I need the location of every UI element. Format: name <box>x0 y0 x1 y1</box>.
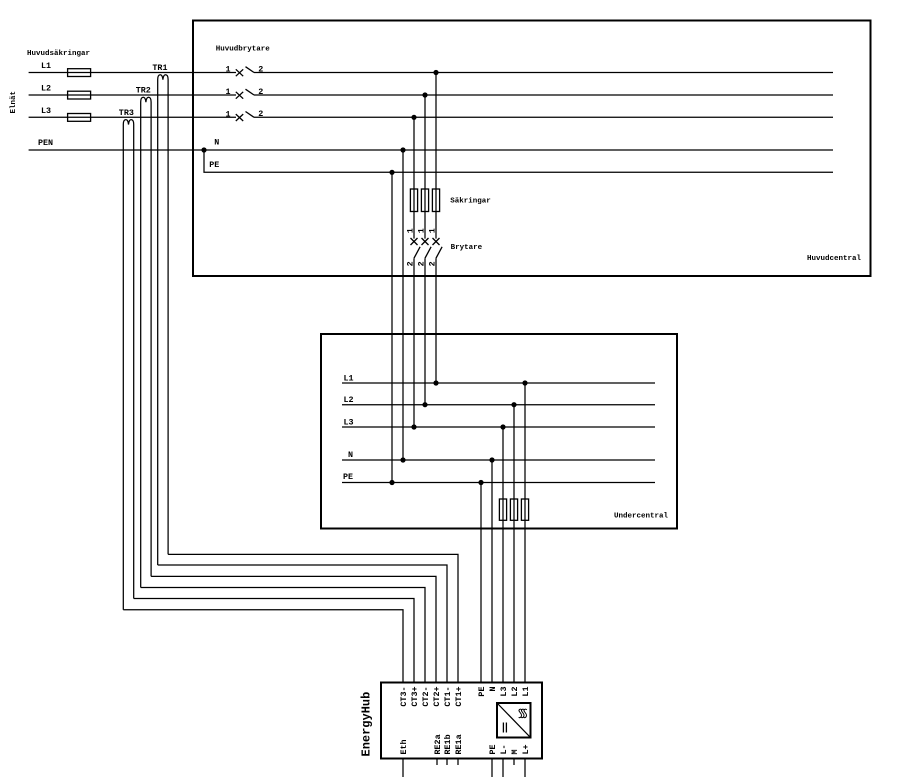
node N tap <box>400 147 405 152</box>
wire L+ stub <box>524 759 526 777</box>
svg-text:L2: L2 <box>510 687 520 697</box>
node N out <box>489 457 494 462</box>
svg-text:PE: PE <box>488 744 498 754</box>
svg-text:Huvudbrytare: Huvudbrytare <box>216 46 271 54</box>
svg-text:PE: PE <box>343 472 353 482</box>
transformer TR1 <box>158 75 168 565</box>
fuse säkring L2 <box>421 189 428 212</box>
wire PEN / N <box>29 149 833 151</box>
svg-text:L+: L+ <box>521 744 531 754</box>
node L2 tap <box>422 92 427 97</box>
svg-text:CT2+: CT2+ <box>432 687 442 707</box>
svg-text:Huvudsäkringar: Huvudsäkringar <box>27 50 90 58</box>
svg-text:1: 1 <box>226 109 231 119</box>
node L1 in <box>433 380 438 385</box>
fuse under L1 <box>521 499 528 520</box>
pin stub RE1b <box>446 759 448 766</box>
svg-text:2: 2 <box>258 87 263 97</box>
node L3 out <box>500 424 505 429</box>
svg-text:CT2-: CT2- <box>421 687 431 707</box>
node PE tap <box>389 170 394 175</box>
inverter DC bars <box>502 723 504 733</box>
svg-text:CT3+: CT3+ <box>410 687 420 707</box>
svg-text:1: 1 <box>226 65 231 75</box>
svg-text:N: N <box>214 138 219 148</box>
fuse under L3 <box>499 499 506 520</box>
node L1 out <box>522 380 527 385</box>
wire PE (under) <box>342 482 655 484</box>
node L1 tap <box>433 70 438 75</box>
wire CT1+ (TR1 right to EnergyHub) <box>168 554 458 682</box>
wire CT2- (TR2 left) <box>141 588 425 683</box>
svg-text:Säkringar: Säkringar <box>450 197 491 205</box>
svg-text:L1: L1 <box>41 61 51 71</box>
wire L1 down to EnergyHub <box>524 383 526 683</box>
node PE in <box>389 480 394 485</box>
svg-text:2: 2 <box>417 261 427 266</box>
svg-text:RE1a: RE1a <box>454 734 464 754</box>
wire L3 drop <box>413 117 415 238</box>
svg-text:CT1+: CT1+ <box>454 687 464 707</box>
wire CT2+ (TR2 right) <box>151 576 436 682</box>
svg-text:L3: L3 <box>499 687 509 697</box>
wire L- stub <box>502 759 504 777</box>
svg-text:RE1b: RE1b <box>443 734 453 754</box>
svg-text:Huvudcentral: Huvudcentral <box>807 255 862 263</box>
wire N drop <box>402 150 404 460</box>
svg-text:TR2: TR2 <box>136 86 151 96</box>
wire N (under) <box>342 459 655 461</box>
svg-text:Brytare: Brytare <box>451 244 483 252</box>
svg-text:PEN: PEN <box>38 138 53 148</box>
wire L1 <box>29 72 236 74</box>
svg-text:2: 2 <box>258 109 263 119</box>
svg-text:EnergyHub: EnergyHub <box>360 692 374 757</box>
wire L1 drop <box>435 73 437 239</box>
wire PE <box>204 150 833 172</box>
wire N down <box>491 460 493 683</box>
fuse L2 <box>68 91 91 99</box>
svg-text:N: N <box>348 450 353 460</box>
wire L1 (under) <box>342 382 655 384</box>
wire L3 (under) <box>342 426 655 428</box>
wire Eth stub <box>402 759 404 777</box>
wire CT3+ (TR3 right) <box>134 599 414 683</box>
svg-text:Eth: Eth <box>399 739 409 754</box>
svg-text:RE2a: RE2a <box>433 734 443 754</box>
pin stub M <box>513 759 515 766</box>
svg-text:L1: L1 <box>344 374 354 384</box>
box EnergyHub <box>381 683 542 759</box>
wire PE down <box>480 483 482 683</box>
wire CT3- (TR3 left) <box>123 610 403 683</box>
node L3 in <box>411 424 416 429</box>
svg-text:L-: L- <box>499 744 509 754</box>
svg-text:1: 1 <box>226 87 231 97</box>
box Huvudcentral <box>193 21 871 277</box>
node PE out <box>478 480 483 485</box>
svg-text:L1: L1 <box>521 687 531 697</box>
fuse säkring L3 <box>410 189 417 212</box>
svg-text:L2: L2 <box>41 84 51 94</box>
svg-text:2: 2 <box>258 64 263 74</box>
svg-text:2: 2 <box>428 261 438 266</box>
inverter AC waves <box>519 709 522 717</box>
fuse L3 <box>68 114 91 122</box>
box Undercentral <box>321 334 677 529</box>
wire L2 <box>29 94 236 96</box>
wire L3 <box>29 116 236 118</box>
wire L2 down <box>513 405 515 683</box>
svg-text:L2: L2 <box>344 395 354 405</box>
svg-text:TR3: TR3 <box>119 108 134 118</box>
svg-text:Elnät: Elnät <box>10 91 18 114</box>
svg-text:1: 1 <box>428 228 438 233</box>
pin stub RE2a <box>436 759 438 766</box>
svg-text:CT3-: CT3- <box>399 687 409 707</box>
transformer TR3 <box>123 120 133 610</box>
fuse L1 <box>68 69 91 77</box>
svg-text:2: 2 <box>406 261 416 266</box>
wire CT1- (TR1 left) <box>158 565 447 683</box>
inverter U1 <box>497 703 531 738</box>
transformer TR2 <box>141 97 151 587</box>
svg-text:Undercentral: Undercentral <box>614 512 669 520</box>
wire L2 (under) <box>342 404 655 406</box>
svg-text:1: 1 <box>417 228 427 233</box>
node L3 tap <box>411 115 416 120</box>
node L2 out <box>511 402 516 407</box>
node PE branch <box>201 147 206 152</box>
svg-text:PE: PE <box>209 160 219 170</box>
wire PE stub <box>491 759 493 777</box>
svg-text:N: N <box>488 687 498 692</box>
wire PE drop <box>391 172 393 482</box>
pin stub RE1a <box>457 759 459 766</box>
svg-text:L3: L3 <box>344 418 354 428</box>
svg-text:1: 1 <box>406 228 416 233</box>
svg-text:L3: L3 <box>41 106 51 116</box>
wire L2 drop <box>424 95 426 239</box>
node L2 in <box>422 402 427 407</box>
svg-text:M: M <box>510 749 520 754</box>
fuse säkring L1 <box>432 189 439 212</box>
svg-text:CT1-: CT1- <box>443 687 453 707</box>
svg-text:PE: PE <box>477 687 487 697</box>
node N in <box>400 457 405 462</box>
svg-text:TR1: TR1 <box>152 63 167 73</box>
fuse under L2 <box>510 499 517 520</box>
wire L3 down <box>502 427 504 683</box>
